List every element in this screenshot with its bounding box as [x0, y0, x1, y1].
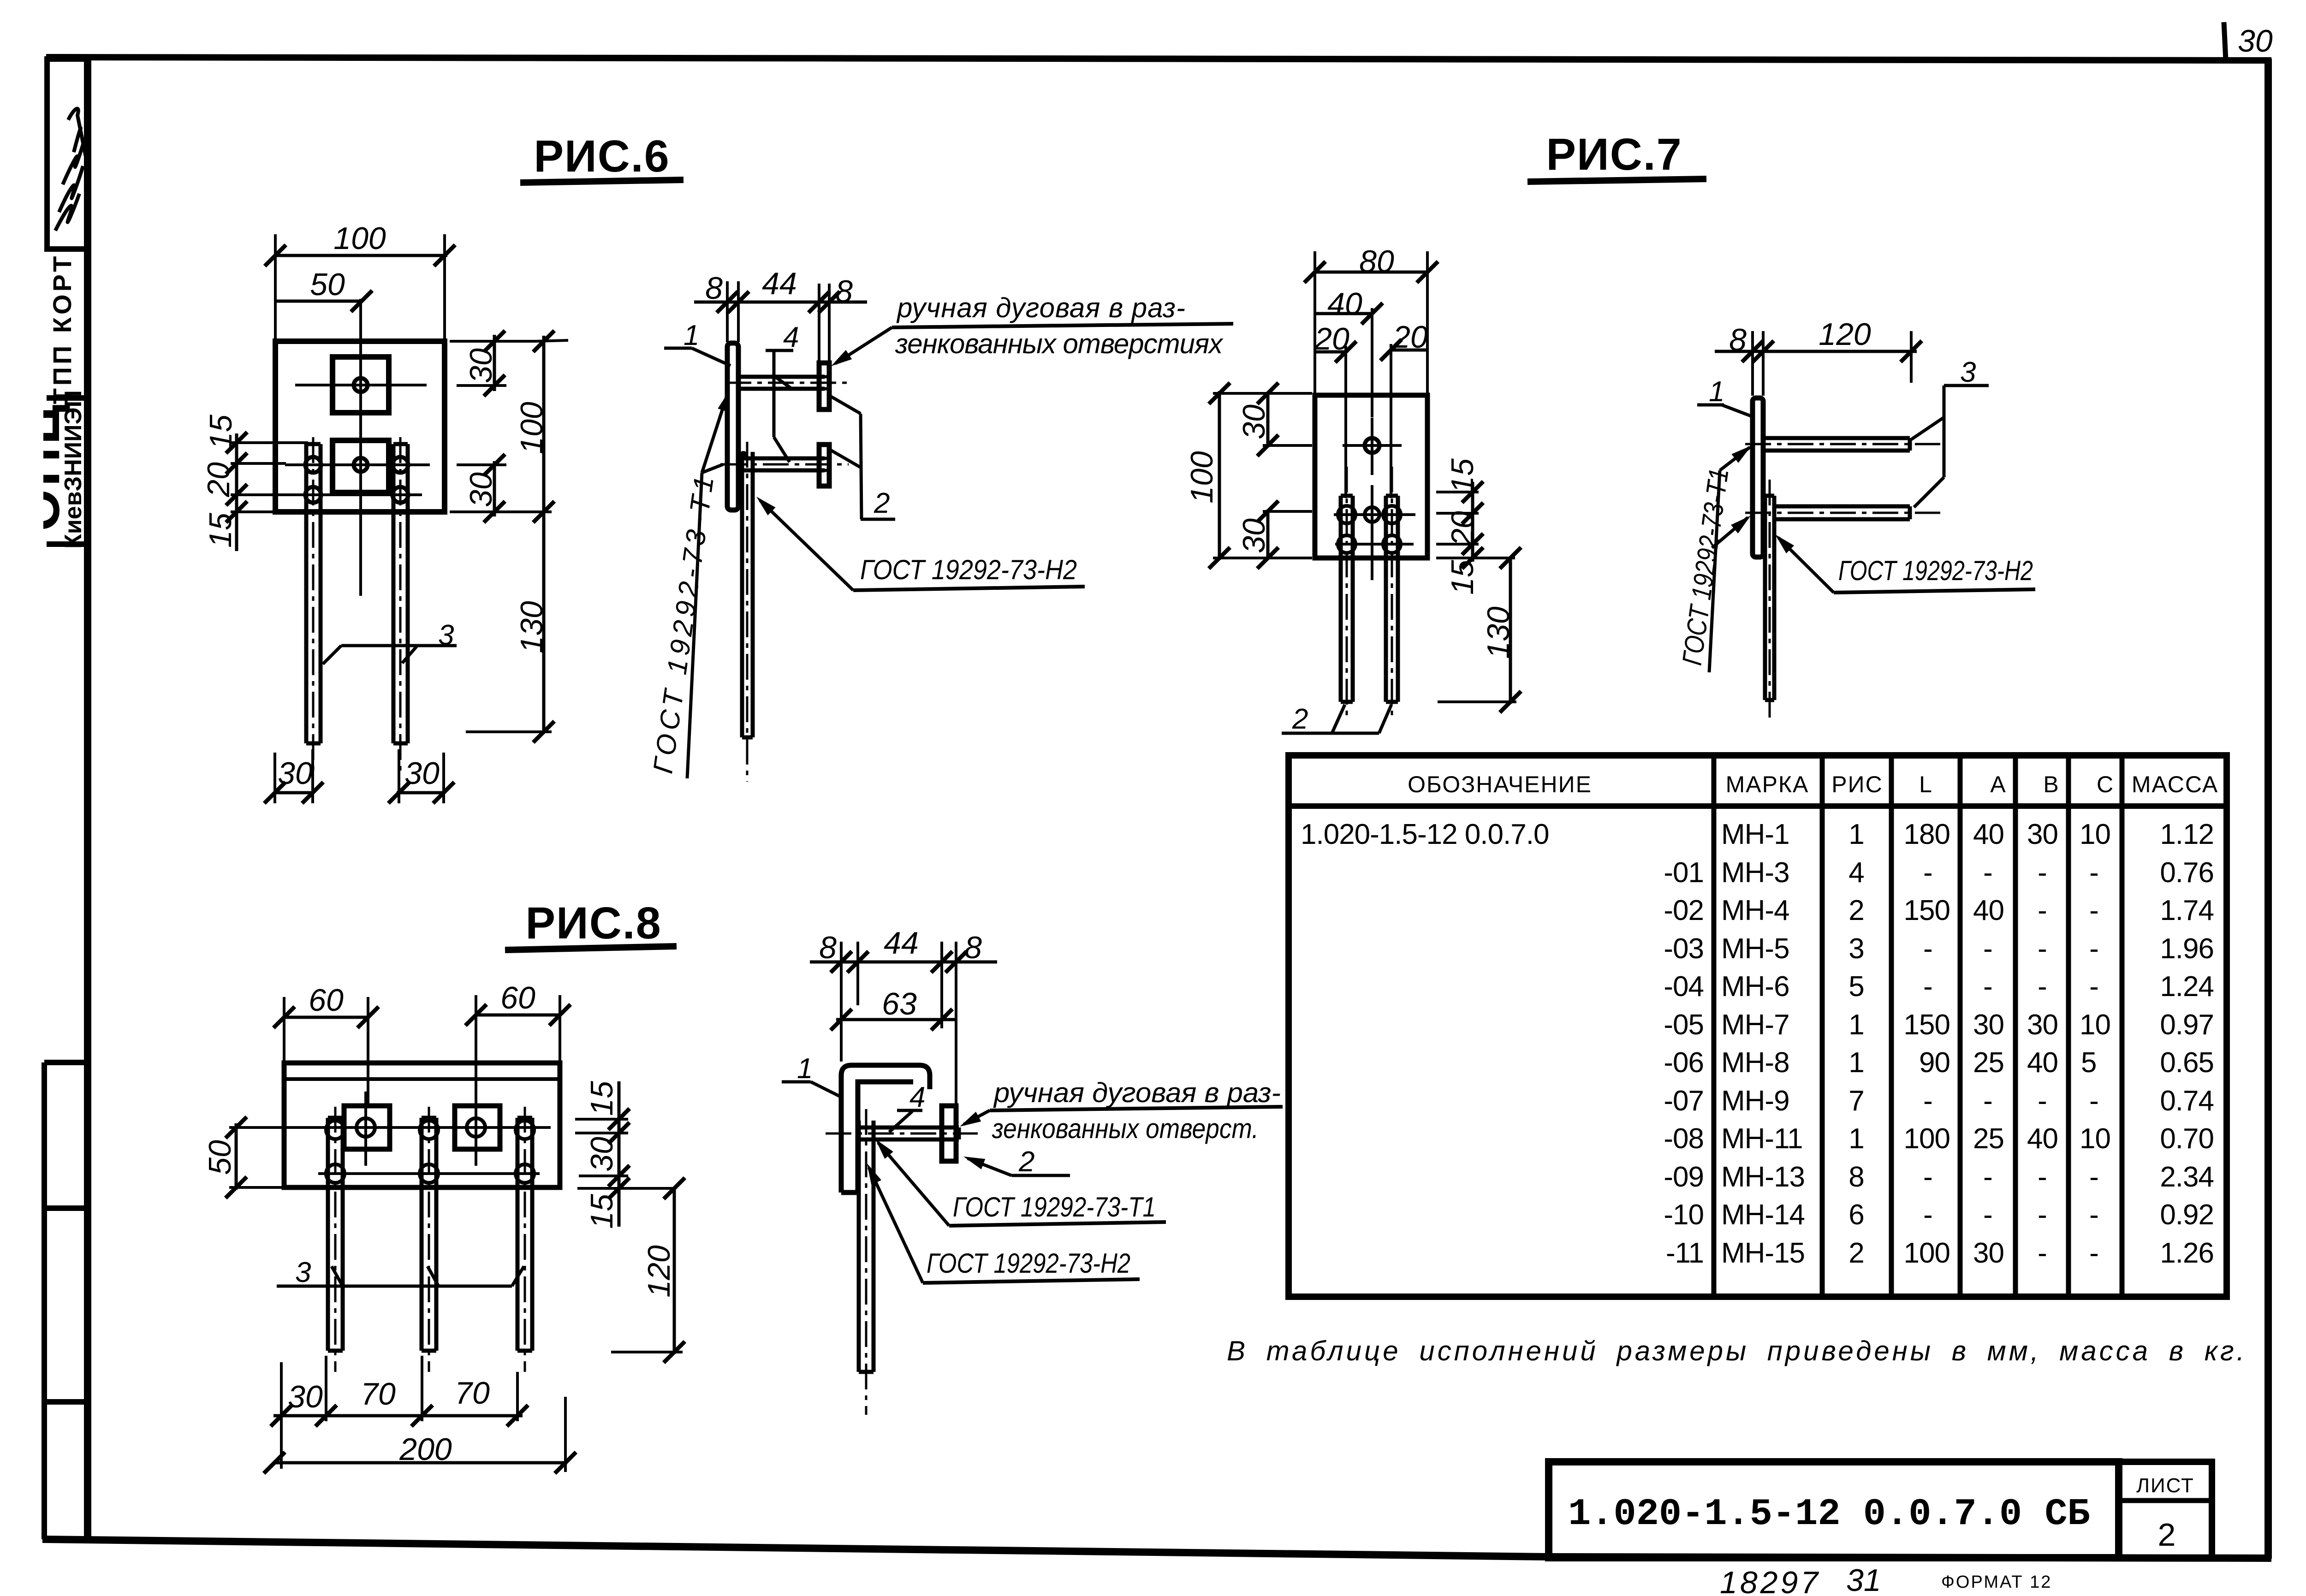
page right border: [2264, 59, 2272, 1559]
svg-text:-: -: [2089, 1161, 2098, 1193]
svg-text:МН-14: МН-14: [1721, 1199, 1805, 1231]
svg-text:-: -: [1983, 857, 1992, 889]
fig7 side leader 3: [1911, 356, 1989, 507]
svg-text:-05: -05: [1664, 1009, 1704, 1041]
svg-text:ГОСТ 19292-73-Н2: ГОСТ 19292-73-Н2: [1838, 555, 2033, 586]
svg-text:50: 50: [310, 267, 345, 302]
svg-text:-: -: [2038, 971, 2047, 1003]
svg-text:40: 40: [1973, 895, 2004, 926]
fig7 dim 80: [1304, 244, 1438, 393]
svg-text:-: -: [2038, 1085, 2047, 1117]
fig7 plan: plate: [1315, 395, 1427, 558]
svg-text:МАРКА: МАРКА: [1726, 771, 1809, 797]
svg-text:30: 30: [464, 472, 499, 507]
svg-text:18297: 18297: [1720, 1565, 1821, 1596]
svg-text:-: -: [1923, 1199, 1932, 1231]
svg-text:1.96: 1.96: [2160, 933, 2214, 965]
svg-text:-: -: [2038, 857, 2047, 889]
svg-text:2: 2: [874, 487, 890, 519]
svg-text:4: 4: [909, 1081, 925, 1113]
fig8 side note manual arc welding countersunk: [957, 1077, 1283, 1144]
title block main box: [1549, 1462, 2119, 1558]
fig7 side: anchor rod pos2 vertical: [1765, 480, 1774, 720]
svg-text:А: А: [1990, 771, 2006, 797]
svg-text:2: 2: [1848, 895, 1864, 926]
svg-text:15: 15: [1445, 560, 1480, 595]
fig8 right dim 120: [611, 1178, 685, 1363]
svg-text:1.12: 1.12: [2160, 819, 2214, 850]
svg-text:30: 30: [1973, 1009, 2004, 1041]
fig8 plan: pad square 2: [455, 1092, 500, 1166]
svg-text:МН-13: МН-13: [1721, 1161, 1805, 1193]
fig6 side dim 8 44 8: [694, 266, 867, 362]
svg-text:МН-6: МН-6: [1721, 971, 1789, 1003]
svg-text:-: -: [1923, 1085, 1932, 1117]
svg-text:90: 90: [1919, 1047, 1950, 1079]
fig6 dim 100 top: [265, 221, 455, 340]
svg-text:ГОСТ 19292-73-Т1: ГОСТ 19292-73-Т1: [647, 475, 719, 776]
svg-text:0.76: 0.76: [2160, 857, 2214, 889]
svg-text:ТПП КОРТ: ТПП КОРТ: [48, 254, 77, 404]
svg-text:40: 40: [2027, 1047, 2058, 1079]
svg-text:100: 100: [1184, 451, 1219, 504]
svg-text:120: 120: [642, 1245, 677, 1298]
fig7 left dim 100: [1184, 383, 1312, 569]
note text below table: [1227, 1335, 2247, 1366]
svg-text:44: 44: [762, 266, 797, 301]
svg-text:130: 130: [1481, 606, 1516, 659]
spec table row 1: [1301, 819, 2214, 850]
fig6 dim 50 top: [274, 267, 372, 312]
svg-text:15: 15: [203, 415, 238, 450]
svg-text:-: -: [2089, 1199, 2098, 1231]
fig6 side leader 4: [766, 321, 799, 462]
svg-text:63: 63: [882, 986, 917, 1021]
spec table row 4: [1664, 933, 2214, 965]
svg-text:-: -: [2038, 1199, 2047, 1231]
svg-text:С: С: [2097, 771, 2114, 797]
svg-text:-04: -04: [1664, 971, 1704, 1003]
svg-text:0.65: 0.65: [2160, 1047, 2214, 1079]
svg-text:1.020-1.5-12 0.0.7.0 СБ: 1.020-1.5-12 0.0.7.0 СБ: [1568, 1493, 2090, 1536]
fig8 side: angle plate pos1: [841, 1065, 930, 1193]
spec table header: [1408, 771, 2218, 797]
svg-text:30: 30: [1236, 404, 1272, 439]
spec table row 3: [1664, 895, 2214, 926]
svg-text:100: 100: [514, 402, 549, 454]
svg-text:2: 2: [1018, 1146, 1034, 1178]
svg-text:РИС.8: РИС.8: [525, 898, 661, 948]
fig6 plan: weld circles row2: [305, 487, 408, 503]
fig8 dim 60 right: [465, 980, 571, 1104]
svg-text:-: -: [1923, 971, 1932, 1003]
svg-text:МАССА: МАССА: [2132, 771, 2218, 797]
svg-text:6: 6: [1848, 1199, 1864, 1231]
spec table row 11: [1664, 1199, 2214, 1231]
fig8 plan: horizontal centerline: [308, 1126, 551, 1129]
fig8 plan: anchor rod 1: [328, 1107, 343, 1372]
fig7 right dim 130: [1438, 547, 1521, 712]
svg-text:-: -: [2038, 1237, 2047, 1269]
fig7 side dim 8 120: [1715, 317, 1922, 396]
fig6 right dim 30 upper: [450, 331, 535, 396]
fig7 dim 20 left: [1314, 321, 1356, 498]
svg-text:70: 70: [361, 1376, 396, 1412]
fig6 right dim 30 lower: [457, 454, 506, 522]
svg-text:2.34: 2.34: [2160, 1161, 2214, 1193]
fig7 left dim 30 upper: [1236, 383, 1312, 456]
svg-text:10: 10: [2080, 1009, 2110, 1041]
svg-text:1.24: 1.24: [2160, 971, 2214, 1003]
stamp bottom line: [47, 541, 88, 547]
lower stamp boxes column: [44, 1062, 84, 1539]
fig6 plan: upper pad hole: [354, 378, 368, 392]
svg-text:-: -: [1923, 1161, 1932, 1193]
svg-text:-07: -07: [1664, 1085, 1704, 1117]
svg-text:-: -: [2089, 857, 2098, 889]
svg-text:180: 180: [1904, 819, 1950, 850]
fig8 side leader 4: [889, 1081, 925, 1132]
fig8 plan: weld circles row2: [318, 1164, 540, 1183]
stamp signature box top left: [47, 59, 88, 249]
svg-text:-11: -11: [1666, 1237, 1704, 1269]
format note FORMAT 12: [1941, 1572, 2052, 1592]
fig7 side label GOST 19292-73-N2: [1771, 531, 2035, 593]
svg-text:2: 2: [1848, 1237, 1864, 1269]
svg-text:-: -: [1983, 1085, 1992, 1117]
fig8 side: washer pos2: [942, 1106, 956, 1161]
spec table row 6: [1664, 1009, 2214, 1041]
svg-text:1: 1: [797, 1053, 813, 1085]
svg-text:МН-3: МН-3: [1721, 857, 1789, 889]
svg-text:30: 30: [1236, 518, 1272, 553]
svg-text:7: 7: [1848, 1085, 1864, 1117]
svg-text:-10: -10: [1664, 1199, 1704, 1231]
fig8 left dim 50: [202, 1117, 308, 1198]
fig8 right dims 15 30 15: [575, 1081, 675, 1229]
svg-text:ручная дуговая в раз-: ручная дуговая в раз-: [993, 1077, 1281, 1108]
page left border: [84, 55, 91, 1540]
svg-text:50: 50: [202, 1140, 238, 1175]
page bottom border: [42, 1539, 2271, 1558]
fig7 side: upper rod pos3: [1745, 438, 1940, 451]
fig8 side label GOST 19292-73-T1: [871, 1135, 1166, 1226]
fig8 plan: anchor rod 2: [422, 1107, 436, 1372]
fig8 side label GOST 19292-73-N2: [862, 1161, 1140, 1283]
svg-text:2: 2: [1292, 703, 1308, 735]
fig8 side dim 63: [831, 986, 957, 1030]
svg-text:-: -: [1983, 1161, 1992, 1193]
svg-text:-: -: [1923, 933, 1932, 965]
stamp text KievZNIIEP: [60, 390, 87, 549]
svg-text:30: 30: [584, 1137, 619, 1172]
svg-text:15: 15: [203, 513, 238, 548]
fig6 side label GOST 19292-73-T1: [647, 388, 735, 778]
svg-text:8: 8: [705, 271, 723, 306]
svg-text:8: 8: [835, 274, 853, 309]
svg-text:-: -: [2038, 933, 2047, 965]
svg-text:0.92: 0.92: [2160, 1199, 2214, 1231]
svg-text:ОБОЗНАЧЕНИЕ: ОБОЗНАЧЕНИЕ: [1408, 771, 1592, 797]
svg-text:8: 8: [1729, 322, 1747, 357]
fig7 plan: top hole: [1343, 418, 1402, 475]
svg-text:1: 1: [1848, 1047, 1864, 1079]
svg-text:ЛИСТ: ЛИСТ: [2136, 1474, 2194, 1497]
spec table row 2: [1664, 857, 2214, 889]
handwritten sheet number 30 top right: [2224, 22, 2273, 60]
spec table row 12: [1666, 1237, 2214, 1269]
svg-text:3: 3: [1960, 356, 1976, 388]
stamp divider line: [47, 395, 88, 401]
svg-text:1: 1: [1848, 1009, 1864, 1041]
svg-text:20: 20: [1392, 320, 1428, 355]
svg-text:-01: -01: [1664, 857, 1704, 889]
fig8 plan leader 3: [277, 1257, 524, 1288]
fig6 side: flat bar pos1: [727, 343, 738, 510]
svg-text:-: -: [1983, 971, 1992, 1003]
svg-text:ГОСТ 19292-73-Н2: ГОСТ 19292-73-Н2: [927, 1248, 1130, 1279]
svg-text:3: 3: [438, 619, 454, 651]
svg-text:РИС.7: РИС.7: [1546, 129, 1682, 179]
svg-text:-: -: [2089, 1085, 2098, 1117]
fig8 bottom dims 30 70 70: [271, 1356, 528, 1469]
svg-text:150: 150: [1904, 895, 1950, 926]
title block sheet box: [2119, 1462, 2212, 1558]
svg-text:-: -: [2038, 1161, 2047, 1193]
svg-text:40: 40: [1327, 286, 1362, 321]
svg-text:15: 15: [1445, 458, 1480, 493]
fig6 side leader 2: [831, 397, 895, 519]
stamp big clipped letters: [0, 394, 71, 551]
fig6 plan: row2 horizontal centerline: [291, 493, 422, 496]
fig8 title RIS.8: [505, 898, 677, 950]
svg-text:РИС: РИС: [1831, 771, 1883, 797]
spec table row 10: [1664, 1161, 2214, 1193]
fig6 plan: lower pad square: [333, 440, 389, 492]
fig6 bottom dim 30 left: [264, 749, 323, 803]
svg-text:3: 3: [1848, 933, 1864, 965]
svg-text:20: 20: [1314, 321, 1349, 356]
spec table frame: [1289, 755, 2227, 1297]
stamp text TPP KORT: [48, 254, 77, 404]
svg-text:30: 30: [404, 756, 440, 791]
svg-text:30: 30: [2027, 819, 2058, 850]
svg-text:30: 30: [1973, 1237, 2004, 1269]
svg-text:15: 15: [584, 1081, 619, 1116]
svg-text:1.26: 1.26: [2160, 1237, 2214, 1269]
fig7 side leader 1: [1697, 376, 1754, 417]
svg-text:20: 20: [1445, 511, 1480, 546]
fig7 plan: weld circles row2: [1335, 535, 1414, 553]
svg-text:60: 60: [309, 983, 344, 1018]
svg-text:зенкованных отверст.: зенкованных отверст.: [992, 1113, 1259, 1144]
svg-text:40: 40: [2027, 1123, 2058, 1155]
svg-text:25: 25: [1973, 1123, 2004, 1155]
svg-text:1: 1: [1848, 1123, 1864, 1155]
fig7 side: flat bar pos1: [1753, 398, 1763, 557]
svg-text:8: 8: [1848, 1161, 1864, 1193]
fig6 plan: left anchor rod: [306, 437, 321, 775]
svg-text:4: 4: [1848, 857, 1864, 889]
fig8 plan: plate with bent edge: [284, 1063, 560, 1187]
svg-text:30: 30: [2238, 24, 2273, 59]
svg-text:-06: -06: [1664, 1047, 1704, 1079]
svg-text:120: 120: [1819, 317, 1871, 352]
svg-text:-: -: [1983, 1199, 1992, 1231]
fig6 plan: upper pad square: [333, 357, 389, 413]
svg-text:1.020-1.5-12 0.0.7.0: 1.020-1.5-12 0.0.7.0: [1301, 819, 1549, 850]
svg-text:ручная дуговая в раз-: ручная дуговая в раз-: [896, 292, 1185, 323]
svg-text:МН-9: МН-9: [1721, 1085, 1789, 1117]
svg-text:2: 2: [2158, 1517, 2176, 1553]
fig7 right dims 15 20 15: [1436, 458, 1515, 595]
fig7 plan leader 2: [1282, 703, 1391, 735]
fig6 side: lower rod pos4: [720, 458, 849, 470]
fig7 side: lower rod pos3: [1745, 506, 1940, 519]
fig7 title RIS.7: [1527, 129, 1706, 182]
svg-text:8: 8: [819, 930, 837, 965]
svg-text:-: -: [1983, 933, 1992, 965]
svg-text:ГОСТ 19292-73-Т1: ГОСТ 19292-73-Т1: [953, 1192, 1156, 1222]
svg-text:В: В: [2043, 771, 2059, 797]
fig6 plan: row1 horizontal centerline: [285, 463, 430, 466]
fig8 plan: anchor rod 3: [517, 1107, 532, 1372]
svg-text:-02: -02: [1664, 895, 1704, 926]
svg-text:зенкованных отверстиях: зенкованных отверстиях: [895, 328, 1224, 359]
svg-text:30: 30: [288, 1379, 323, 1414]
fig6 side label GOST 19292-73-N2: [753, 492, 1085, 590]
fig6 side leader 1: [664, 320, 731, 366]
svg-text:МН-5: МН-5: [1721, 933, 1789, 965]
svg-text:1.74: 1.74: [2160, 895, 2214, 926]
fig8 side leader 2: [962, 1146, 1070, 1178]
svg-text:-: -: [2089, 971, 2098, 1003]
svg-text:-: -: [2038, 895, 2047, 926]
svg-text:200: 200: [399, 1432, 452, 1467]
fig6 plan: lower pad hole: [354, 458, 368, 472]
svg-text:МН-1: МН-1: [1721, 819, 1789, 850]
svg-text:ГОСТ 19292-73-Н2: ГОСТ 19292-73-Н2: [860, 554, 1077, 585]
fig6 plan: upper pad horizontal centerline: [295, 384, 427, 386]
svg-text:60: 60: [500, 980, 535, 1015]
fig6 plan: weld circles row1: [305, 457, 408, 473]
svg-text:1: 1: [1709, 376, 1724, 408]
svg-text:30: 30: [2027, 1009, 2058, 1041]
svg-text:44: 44: [884, 926, 919, 961]
svg-text:70: 70: [455, 1376, 490, 1411]
svg-text:-09: -09: [1664, 1161, 1704, 1193]
fig6 left dims 15 20 15: [201, 415, 308, 551]
svg-text:150: 150: [1904, 1009, 1950, 1041]
fig6 title RIS.6: [520, 131, 683, 183]
svg-text:4: 4: [783, 321, 799, 353]
fig6 plan: plate MN: [275, 341, 445, 512]
fig6 plan leader 3: [323, 619, 457, 664]
svg-text:31: 31: [1846, 1563, 1881, 1596]
svg-text:-: -: [2089, 895, 2098, 926]
fig7 dim 20 right: [1380, 320, 1428, 498]
spec table row 7: [1664, 1047, 2214, 1079]
svg-text:МН-7: МН-7: [1721, 1009, 1789, 1041]
fig8 side leader 1: [782, 1053, 842, 1098]
fig8 side: anchor rod pos3 vertical: [859, 1109, 874, 1415]
fig8 bottom dim 200: [264, 1397, 576, 1473]
fig8 plan: weld circles row1: [326, 1121, 534, 1139]
svg-text:100: 100: [333, 221, 386, 256]
svg-text:МН-8: МН-8: [1721, 1047, 1789, 1079]
svg-text:L: L: [1919, 771, 1933, 797]
svg-text:40: 40: [1973, 819, 2004, 850]
svg-text:В таблице исполнений размеры п: В таблице исполнений размеры приведены в…: [1227, 1335, 2247, 1366]
svg-text:15: 15: [584, 1194, 619, 1229]
fig6 side: anchor rod pos3 vertical: [739, 442, 753, 782]
svg-text:130: 130: [514, 601, 549, 653]
fig6 side: lower washer pos2: [819, 445, 829, 486]
svg-text:80: 80: [1359, 244, 1394, 279]
spec table row 8: [1664, 1085, 2214, 1117]
spec table row 9: [1664, 1123, 2214, 1155]
svg-text:МН-4: МН-4: [1721, 895, 1789, 926]
fig7 plan: right anchor rod: [1386, 467, 1398, 719]
svg-text:5: 5: [2081, 1047, 2096, 1079]
svg-text:-03: -03: [1664, 933, 1704, 965]
fig6 side: upper washer pos2: [819, 363, 829, 409]
fig6 right dim 100: [450, 331, 568, 522]
svg-text:20: 20: [201, 462, 236, 498]
svg-text:МН-15: МН-15: [1721, 1237, 1805, 1269]
fig8 plan: pad square 1: [344, 1092, 390, 1166]
fig7 dim 40: [1315, 286, 1383, 417]
fig7 plan: left anchor rod: [1341, 467, 1353, 719]
svg-text:РИС.6: РИС.6: [534, 131, 670, 181]
svg-text:-: -: [1923, 857, 1932, 889]
fig6 bottom dim 30 right: [388, 749, 454, 803]
svg-text:-: -: [2089, 1237, 2098, 1269]
svg-text:0.97: 0.97: [2160, 1009, 2214, 1041]
fig6 plan: right anchor rod: [393, 437, 408, 775]
svg-text:100: 100: [1904, 1237, 1950, 1269]
svg-text:ГОСТ 19292-73-Т1: ГОСТ 19292-73-Т1: [1676, 467, 1735, 667]
svg-text:3: 3: [295, 1257, 311, 1288]
fig6 plan: vertical centerline: [359, 299, 362, 596]
svg-text:10: 10: [2080, 1123, 2110, 1155]
svg-text:-: -: [2089, 933, 2098, 965]
svg-text:30: 30: [464, 348, 499, 383]
fig7 plan: weld circles row1: [1334, 485, 1415, 580]
fig8 side: horizontal rod pos4: [826, 1127, 978, 1139]
fig6 right dim 130: [466, 512, 554, 742]
spec table row 5: [1664, 971, 2214, 1003]
page top border: [46, 57, 2271, 60]
svg-text:1: 1: [1848, 819, 1864, 850]
handwritten archive number 18297 31: [1720, 1563, 1881, 1596]
svg-text:ФОРМАТ 12: ФОРМАТ 12: [1941, 1572, 2052, 1592]
svg-text:10: 10: [2080, 819, 2110, 850]
svg-text:-08: -08: [1664, 1123, 1704, 1155]
svg-text:25: 25: [1973, 1047, 2004, 1079]
svg-text:0.70: 0.70: [2160, 1123, 2214, 1155]
fig8 dim 60 left: [273, 983, 379, 1104]
svg-text:5: 5: [1848, 971, 1864, 1003]
fig7 left dim 30 lower: [1236, 501, 1312, 569]
svg-text:100: 100: [1904, 1123, 1950, 1155]
svg-text:8: 8: [964, 930, 982, 965]
signature squiggle: [55, 109, 86, 231]
svg-text:МН-11: МН-11: [1721, 1123, 1802, 1155]
fig6 side: upper rod pos4: [725, 377, 850, 389]
fig6 side note manual arc welding in countersunk holes: [828, 292, 1233, 371]
fig8 side dim 8 44 8: [810, 926, 997, 1104]
